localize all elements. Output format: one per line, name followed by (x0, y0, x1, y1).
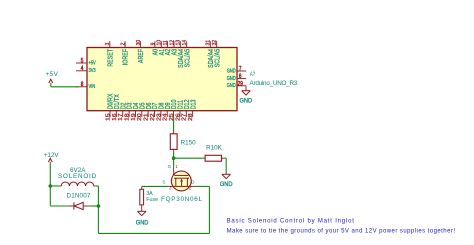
svg-text:32: 32 (212, 40, 218, 46)
svg-text:17: 17 (118, 113, 124, 121)
svg-text:21: 21 (143, 113, 149, 121)
svg-text:19: 19 (130, 113, 136, 121)
svg-text:28: 28 (188, 113, 194, 121)
svg-text:RESET: RESET (107, 49, 115, 67)
svg-text:A?: A? (250, 71, 255, 78)
svg-text:9: 9 (150, 42, 156, 45)
svg-text:29: 29 (238, 81, 243, 88)
svg-text:18: 18 (124, 113, 130, 121)
svg-text:27: 27 (181, 113, 187, 121)
svg-text:GND: GND (227, 68, 236, 75)
svg-text:+5V: +5V (89, 60, 97, 67)
svg-text:24: 24 (162, 113, 168, 121)
svg-text:Basic Solenoid Control by Matt: Basic Solenoid Control by Matt Inglot (227, 219, 355, 225)
svg-text:13: 13 (176, 40, 182, 46)
svg-text:3V3: 3V3 (89, 68, 96, 75)
svg-text:6: 6 (239, 74, 242, 81)
svg-text:Arduino_UNO_R3: Arduino_UNO_R3 (250, 80, 298, 87)
svg-text:+5V: +5V (46, 71, 59, 78)
svg-text:30: 30 (136, 40, 142, 46)
svg-text:1: 1 (175, 164, 178, 169)
svg-text:20: 20 (137, 113, 143, 121)
svg-text:7: 7 (239, 66, 242, 73)
svg-text:GND: GND (220, 181, 233, 189)
svg-text:26: 26 (175, 113, 181, 121)
svg-text:AREF: AREF (137, 49, 145, 63)
svg-text:2: 2 (120, 42, 126, 45)
svg-text:5: 5 (81, 58, 84, 65)
svg-text:SCL/A5: SCL/A5 (184, 48, 192, 67)
svg-text:14: 14 (182, 40, 188, 46)
svg-text:D13: D13 (190, 99, 198, 109)
svg-text:12: 12 (169, 40, 175, 46)
svg-text:VIN: VIN (89, 84, 96, 91)
svg-text:G: G (168, 164, 172, 169)
svg-text:Fuse: Fuse (146, 197, 158, 203)
svg-text:15: 15 (105, 113, 111, 121)
svg-text:R150: R150 (181, 140, 197, 147)
svg-text:R10K: R10K (206, 145, 223, 152)
svg-text:S: S (162, 179, 165, 184)
svg-text:FQP30N06L: FQP30N06L (161, 196, 203, 203)
svg-text:4: 4 (81, 66, 84, 73)
svg-text:SOLENOID: SOLENOID (58, 173, 97, 180)
svg-text:GND: GND (227, 83, 236, 90)
svg-text:23: 23 (156, 113, 162, 121)
svg-text:SCL/A5: SCL/A5 (214, 48, 222, 67)
svg-text:31: 31 (206, 40, 212, 46)
svg-text:10: 10 (157, 40, 163, 46)
svg-text:8: 8 (81, 82, 84, 89)
svg-text:Make sure to tie the grounds o: Make sure to tie the grounds of your 5V … (227, 229, 456, 235)
svg-text:11: 11 (163, 40, 169, 45)
svg-text:GND: GND (239, 97, 252, 105)
svg-text:D1N007: D1N007 (67, 193, 91, 200)
svg-text:GND: GND (136, 219, 149, 227)
svg-text:+12V: +12V (44, 152, 60, 159)
svg-text:22: 22 (149, 113, 155, 121)
svg-text:16: 16 (111, 113, 117, 121)
svg-text:IOREF: IOREF (122, 49, 130, 65)
svg-text:GND: GND (227, 75, 236, 82)
svg-text:3: 3 (105, 42, 111, 45)
